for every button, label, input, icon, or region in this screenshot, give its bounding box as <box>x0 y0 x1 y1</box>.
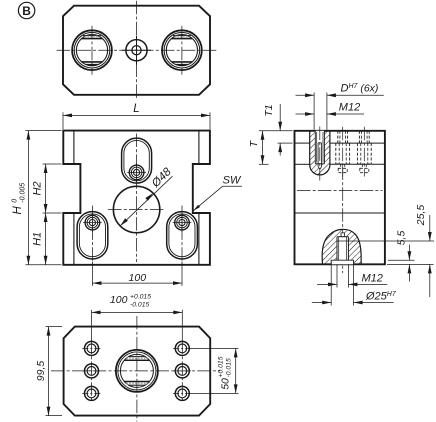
bush ring circle <box>164 32 200 68</box>
view label B circle <box>18 2 34 18</box>
svg-text:H2: H2 <box>32 181 44 195</box>
dimension D H7 line + leader <box>296 94 315 96</box>
center hole crosshair <box>122 49 151 51</box>
oblong slot top outer <box>122 138 152 183</box>
dimension T1 extension line <box>278 142 293 144</box>
bush ring circle <box>74 32 110 68</box>
bottom view column centerlines <box>91 341 93 402</box>
locating hole at (92,371) <box>85 364 99 378</box>
dimension D H7 extension lines <box>313 93 315 130</box>
svg-text:H: H <box>12 206 24 215</box>
svg-text:5,5: 5,5 <box>395 231 407 246</box>
locating hole at (182,371) <box>175 364 189 378</box>
locating hole at (92,393) <box>85 386 99 400</box>
dimension H2 extension lines <box>43 163 62 165</box>
bush thread shading <box>174 36 189 38</box>
svg-text:-0.015: -0.015 <box>226 358 233 377</box>
dimension 25,5 <box>429 215 431 241</box>
side view sectioned bush hatching <box>310 131 330 175</box>
bottom view outline (octagon) <box>64 327 211 416</box>
bush bore circle <box>76 35 107 66</box>
front view outline with side notches <box>63 131 210 265</box>
dimension H1 line <box>45 213 47 265</box>
svg-text:+0.015: +0.015 <box>218 356 225 377</box>
dimension 100 extension lines <box>91 262 93 286</box>
side view bush slot lines <box>318 143 322 170</box>
top view vertical centerline <box>136 1 138 100</box>
svg-text:0: 0 <box>11 199 18 203</box>
svg-text:SW: SW <box>223 174 242 186</box>
hidden threaded hole at x=364 <box>358 131 360 143</box>
locating bush at (92,50) - outer circle <box>72 30 112 70</box>
oblong slot bottom-left outer <box>77 212 108 259</box>
dome counterbore lines <box>331 259 353 261</box>
oblong slot bottom-right outer <box>167 212 198 259</box>
dimension 100 line <box>92 282 182 284</box>
dimension 99.5 extension lines <box>46 326 63 328</box>
dimension H text with tolerance <box>11 183 26 215</box>
side view bottom dome outline <box>322 229 361 264</box>
svg-text:50: 50 <box>220 378 232 390</box>
center bore thread shading <box>126 357 147 359</box>
O25 extension lines <box>330 264 332 305</box>
center bore inner circle <box>120 354 153 387</box>
locating hole at (182,393) <box>175 386 189 400</box>
svg-text:T1: T1 <box>263 104 275 116</box>
dimension 50 tol text <box>218 356 233 389</box>
dimension T1 line+arrows <box>279 104 281 131</box>
M12 bottom extension lines <box>336 264 338 287</box>
screw in slot bottom-left <box>85 215 100 230</box>
side view bush bore white <box>315 131 324 164</box>
reference line counterbore depth <box>388 259 415 261</box>
hidden threaded hole at x=343 <box>337 131 339 143</box>
dimension H extension lines <box>25 130 61 132</box>
dome M12 pilot <box>341 233 345 237</box>
center bore ring <box>118 352 156 390</box>
dome M12 hole lines <box>336 237 338 261</box>
diameter 48 leader line <box>120 176 172 226</box>
oblong slot top inner <box>124 140 149 180</box>
front view circle horizontal centerline <box>108 209 165 211</box>
top view center hole outer circle <box>126 40 147 61</box>
screw in slot bottom-right <box>175 215 190 230</box>
side view notch bottom line <box>295 212 385 214</box>
side view bush outline <box>310 131 330 175</box>
locating bush at (182,50) - outer circle <box>162 30 202 70</box>
svg-text:L: L <box>133 103 139 115</box>
bush bottom chord <box>82 61 103 63</box>
front view right chamfer edge line <box>198 131 200 164</box>
side view bush centerline <box>319 127 321 181</box>
oblong slot bottom-right inner <box>169 214 195 257</box>
bush bore circle <box>166 35 197 66</box>
bottom view horizontal centerline <box>51 370 220 372</box>
bottom face extension line <box>387 263 434 265</box>
M12 bottom dim line <box>317 283 337 285</box>
top view horizontal centerline <box>57 49 217 51</box>
bush thread shading <box>85 36 100 38</box>
svg-text:B: B <box>22 4 31 18</box>
dimension H2 line <box>45 164 47 213</box>
side view bush bore lines <box>314 131 316 164</box>
svg-text:M12: M12 <box>339 101 360 113</box>
svg-text:DH7 (6x): DH7 (6x) <box>341 83 379 95</box>
dome hole whites <box>337 237 348 261</box>
screw in slot top <box>129 165 144 180</box>
dimension 100 tol extension lines <box>91 310 93 343</box>
side view notch top line <box>295 163 310 165</box>
front view left chamfer edge line <box>73 131 75 164</box>
side view horizontal centerline <box>297 190 383 192</box>
dimension M12 top line + leader <box>296 113 315 115</box>
SW leader line <box>193 186 222 211</box>
svg-text:+0.015: +0.015 <box>130 293 151 300</box>
dimension T line <box>262 131 264 165</box>
front view vertical centerline <box>136 134 138 263</box>
side view bottom dome hatching <box>322 229 361 264</box>
dimension L extension lines <box>62 112 64 129</box>
reference line M12 depth <box>337 240 434 242</box>
side view outline <box>295 131 385 264</box>
bottom view vertical centerline <box>136 316 138 422</box>
bush vertical centerline <box>181 26 183 75</box>
dimension 50 tol extension lines <box>191 347 239 349</box>
svg-text:-0.005: -0.005 <box>19 183 26 203</box>
dimension L line <box>63 114 210 116</box>
bottom-right oblong centerline <box>181 206 183 266</box>
top view center hole inner circle <box>132 46 141 55</box>
svg-text:25,5: 25,5 <box>415 205 427 227</box>
side view vertical centerline <box>342 167 344 274</box>
locating hole at (92,348) <box>85 341 99 355</box>
svg-text:100: 100 <box>129 272 147 284</box>
bush bottom dark segment <box>174 64 189 66</box>
svg-text:M12: M12 <box>362 272 383 284</box>
dimension 5,5 <box>408 245 410 261</box>
center bore thread chords <box>129 356 145 358</box>
bush top chords <box>172 38 193 40</box>
side view horizontal line under top face <box>295 142 310 144</box>
side view bush thread lines <box>316 132 318 163</box>
bottom-left oblong centerline <box>91 206 93 266</box>
svg-text:100: 100 <box>110 294 128 306</box>
front view big circle (48 bore) <box>113 186 159 232</box>
top view outline (octagon) <box>63 6 210 95</box>
locating hole at (182,348) <box>175 341 189 355</box>
dimension H line <box>27 131 29 265</box>
bush vertical centerline <box>91 26 93 75</box>
O25 dim line <box>312 302 331 304</box>
dimension 100 tol line <box>92 311 183 313</box>
bottom view center bore outer circle <box>116 350 158 392</box>
oblong slot bottom-left inner <box>79 214 105 257</box>
svg-text:99,5: 99,5 <box>35 361 47 382</box>
dimension 50 tol line <box>235 348 237 393</box>
svg-text:-0.015: -0.015 <box>130 301 149 308</box>
dimension 99.5 line <box>48 327 50 416</box>
svg-text:H1: H1 <box>32 232 44 246</box>
bush bottom chord <box>172 61 193 63</box>
bush top chords <box>82 38 103 40</box>
dimension T extension lines <box>259 130 293 132</box>
bush bottom dark segment <box>84 64 99 66</box>
